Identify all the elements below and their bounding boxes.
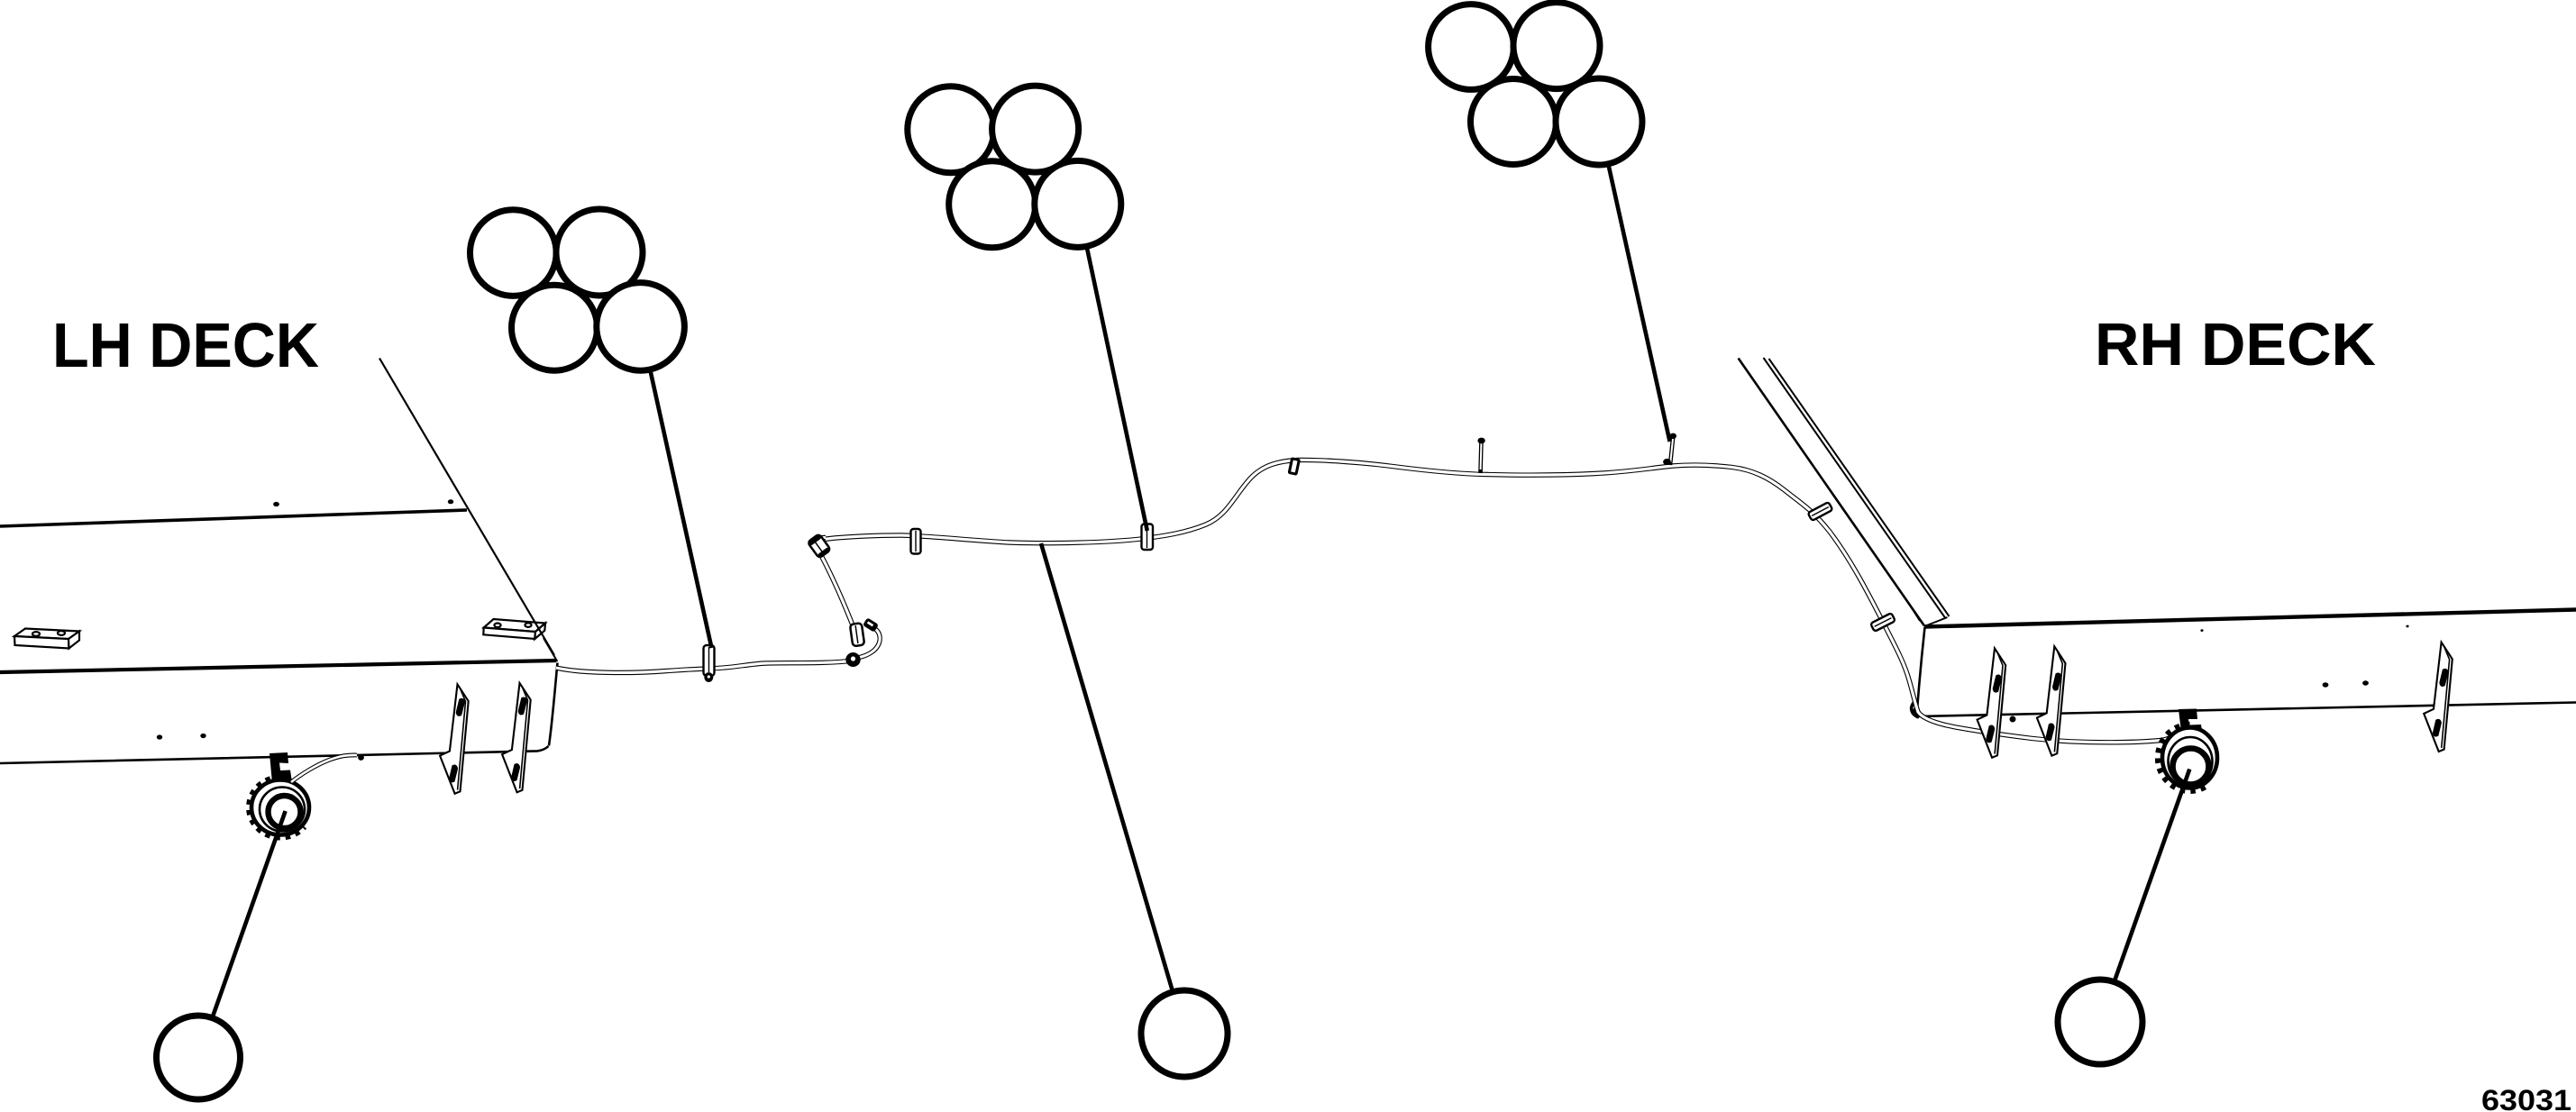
RH deck hanger bracket 3 <box>2424 643 2453 752</box>
LH connector inner bore <box>269 796 301 828</box>
harness corner sleeve clamp <box>808 533 831 558</box>
RH connector mid ring <box>2169 737 2213 786</box>
cable clamp on LH segment <box>704 645 715 682</box>
balloon cluster 1 circle bottom-right <box>597 283 685 371</box>
wire harness top run, S-bend and descent to RH deck <box>824 460 2184 742</box>
balloon cluster 3 circle bottom-right <box>1556 78 1642 165</box>
LH connector pigtail end dot <box>358 754 364 761</box>
balloon cluster 3 circle bottom-left <box>1471 79 1557 165</box>
RH deck front top edge <box>1924 610 2576 627</box>
LH connector mid ring <box>260 788 305 832</box>
balloon cluster 1 circle bottom-left <box>512 285 598 370</box>
leader line from RH balloon to RH connector <box>2115 770 2190 982</box>
svg-text:RH DECK: RH DECK <box>2095 311 2376 378</box>
leader line from balloon cluster 1 to LH clamp <box>650 369 712 648</box>
harness junction elbow tube <box>857 628 880 659</box>
LH deck mounting plate left <box>14 629 79 649</box>
RH deck rail corner join <box>1924 617 1948 626</box>
RH deck front face screw dot 1 <box>2323 682 2329 687</box>
middle single balloon <box>1141 990 1228 1077</box>
cable clamp at S-bend <box>1287 457 1301 476</box>
LH deck top surface screw dot 2 <box>448 499 453 504</box>
harness junction nut on main wire <box>845 652 860 667</box>
LH deck mounting plate right <box>483 619 545 639</box>
svg-text:LH DECK: LH DECK <box>52 310 319 380</box>
RH deck small dot under edge <box>2010 716 2016 723</box>
RH deck hanger bracket 2 <box>2037 646 2066 755</box>
RH connector inner bore <box>2173 749 2209 785</box>
LH deck front face screw dot 1 <box>157 734 162 739</box>
RH deck rail lower end line <box>1909 604 1920 621</box>
leader line from LH balloon to LH connector <box>213 811 286 1017</box>
LH deck hanger bracket 2 <box>502 683 531 792</box>
LH connector gear teeth ring <box>251 779 304 836</box>
LH deck front bottom edge <box>0 746 549 763</box>
RH connector mount bracket <box>2179 709 2202 733</box>
LH deck hanger bracket 1 <box>440 684 469 793</box>
cable clamp on RH rail upper <box>1808 502 1833 521</box>
cable clamp on RH rail lower <box>1870 613 1895 632</box>
svg-text:63031: 63031 <box>2481 1084 2571 1112</box>
LH deck front face screw dot 2 <box>200 734 206 738</box>
balloon cluster 3 circle top-right <box>1513 3 1600 89</box>
balloon cluster 2 circle top-left <box>908 87 994 173</box>
leader line from balloon cluster 2 to mid clamp <box>1087 246 1147 531</box>
LH DECK label leader line <box>379 359 554 656</box>
cable clamp mid (leader target) <box>1142 524 1154 551</box>
LH deck front top edge <box>0 661 556 672</box>
leader line from balloon cluster 3 to stud pin 2 <box>1608 164 1669 442</box>
RH deck rail top edge line 2 <box>1769 359 1950 616</box>
LH deck top right corner sliver <box>544 638 557 661</box>
RH deck front bottom edge <box>1917 703 2576 717</box>
wire harness riser segment <box>818 549 856 634</box>
RH deck rail top edge line 1 <box>1764 358 1946 618</box>
cable clamp on top run <box>911 529 921 554</box>
RH deck bottom left corner wire hook <box>1912 703 1919 717</box>
LH single balloon <box>157 1016 241 1099</box>
leader line from mid balloon to harness wire <box>1041 543 1173 991</box>
LH connector mount bracket <box>269 752 292 783</box>
RH connector gear teeth ring <box>2159 725 2207 789</box>
harness junction sleeve clamp <box>850 623 864 646</box>
LH connector pigtail wire <box>291 755 357 782</box>
RH deck front face tiny dot 2 <box>2200 629 2203 632</box>
RH deck hanger bracket 1 <box>1978 648 2006 757</box>
balloon cluster 2 circle top-right <box>992 86 1079 172</box>
wire harness LH segment <box>556 661 854 672</box>
balloon cluster 3 circle top-left <box>1429 5 1514 90</box>
balloon cluster 1 circle top-left <box>470 210 557 296</box>
harness stud pin 2 <box>1663 433 1676 466</box>
RH connector outer ring <box>2162 728 2217 788</box>
RH deck rail outer edge <box>1739 359 1924 626</box>
LH deck right end edge <box>549 663 558 746</box>
LH deck top surface screw dot 1 <box>273 502 279 506</box>
LH connector outer ring <box>251 780 309 835</box>
RH deck left end edge <box>1917 627 1925 716</box>
harness corner bend <box>815 538 826 551</box>
harness junction upper bolt <box>863 617 879 632</box>
harness stud pin 1 <box>1477 438 1484 473</box>
LH deck belt line (back edge of top surface) <box>0 510 467 526</box>
RH single balloon <box>2058 980 2142 1064</box>
RH deck front face screw dot 2 <box>2362 680 2369 685</box>
balloon cluster 2 circle bottom-right <box>1035 160 1121 247</box>
balloon cluster 2 circle bottom-left <box>949 161 1036 248</box>
RH deck front face tiny dot <box>2406 625 2408 628</box>
balloon cluster 1 circle top-right <box>556 209 643 296</box>
